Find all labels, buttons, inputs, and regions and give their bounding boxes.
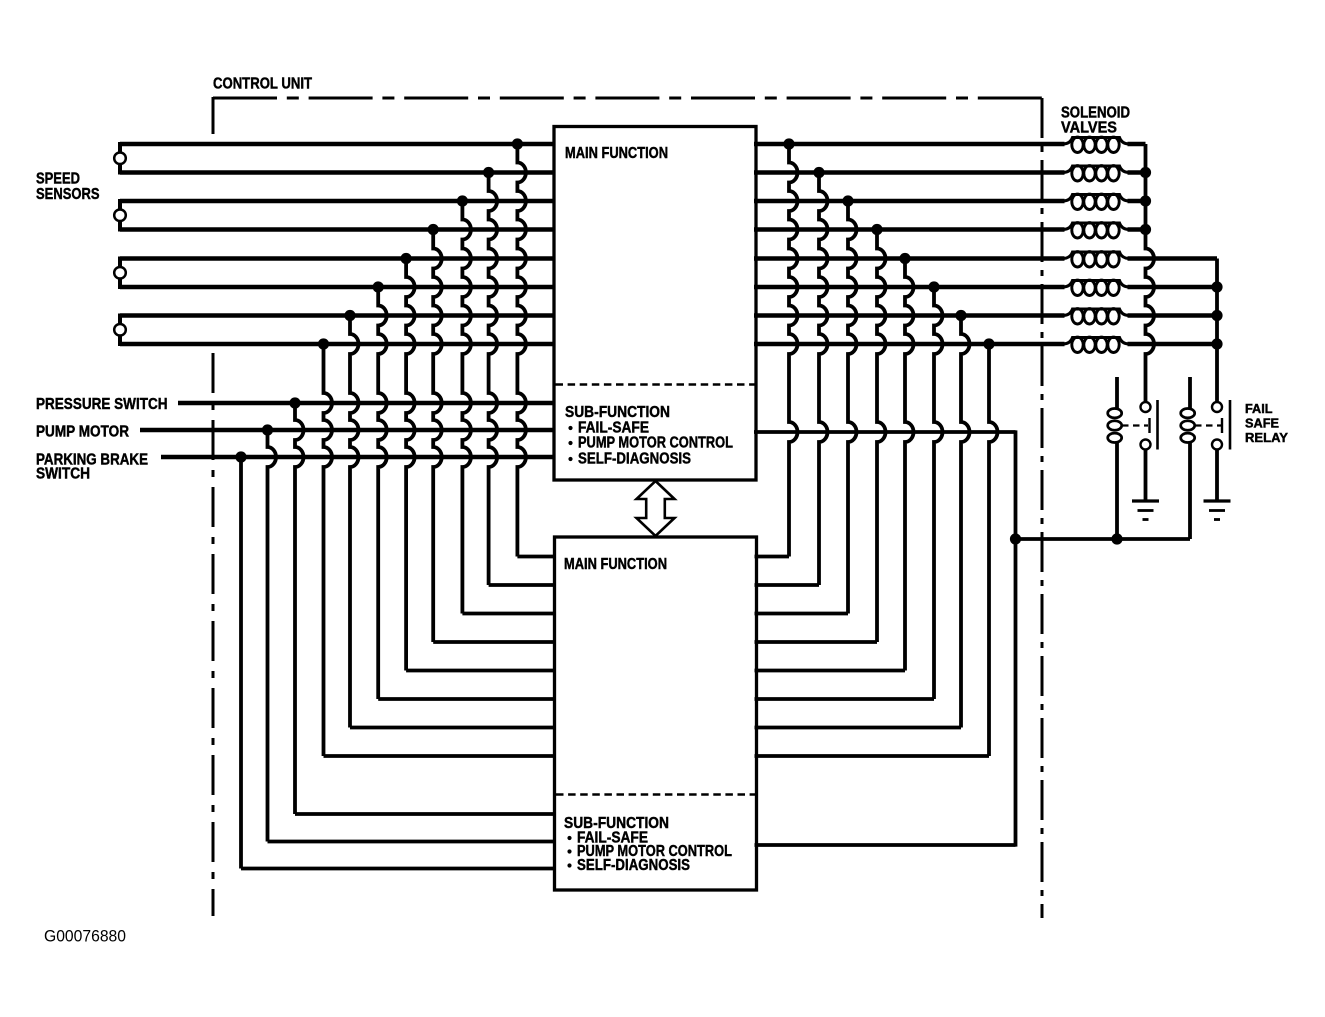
label U1 PUMP MOTOR CONTROL [568, 441, 572, 445]
wire row 7 left (sensor to control unit) [120, 313, 556, 317]
fail-safe relay K1 contact [1141, 402, 1151, 412]
solenoid valve coil L5 [1064, 252, 1129, 259]
label U1 SUB-FUNCTION [565, 404, 670, 421]
svg-text:PUMP MOTOR: PUMP MOTOR [36, 424, 129, 441]
svg-text:MAIN FUNCTION: MAIN FUNCTION [565, 145, 668, 162]
solenoid valve coil L3 [1064, 195, 1129, 202]
solenoid valve coil L7 [1064, 309, 1129, 316]
speed sensor SS3 [118, 257, 122, 290]
wire row 7 right (control unit to solenoid) [754, 313, 1065, 317]
wire row 4 left (sensor to control unit) [120, 227, 556, 231]
label CONTROL UNIT [213, 76, 312, 93]
fail-safe relay K2 contact [1212, 402, 1222, 412]
label SPEED SENSORS [36, 171, 80, 188]
junction bus2 row 8 [1211, 338, 1222, 349]
solenoid valve coil L6 [1064, 281, 1129, 288]
wire row 5 right (control unit to solenoid) [754, 256, 1065, 260]
wire pressure switch [178, 401, 556, 405]
svg-text:CONTROL UNIT: CONTROL UNIT [213, 76, 312, 93]
wire row 7 vertical link to lower block [350, 316, 359, 728]
wire pump motor vertical link to lower block [268, 430, 277, 842]
solenoid valve coil L8 [1064, 338, 1129, 345]
wire row 2 vertical link to lower block [489, 173, 498, 586]
label PARKING BRAKE SWITCH [36, 452, 148, 469]
svg-text:SENSORS: SENSORS [36, 186, 100, 203]
wire row 1 vertical link from lower block [789, 144, 798, 557]
junction row 6 left [373, 281, 384, 292]
control unit boundary (dash-dot), left side [212, 97, 215, 134]
wire row 6 vertical link from lower block [934, 287, 943, 699]
wire row 6 right (control unit to solenoid) [754, 285, 1065, 289]
control unit boundary (dash-dot), right side [1041, 98, 1044, 918]
solenoid valve coil L4 [1064, 223, 1129, 230]
wire solenoid bus 2 (rows 5-8) to relay contact K2 [1215, 259, 1219, 403]
wire row 1 left (sensor to control unit) [120, 142, 556, 146]
svg-text:FAIL: FAIL [1245, 401, 1273, 416]
junction row 2 right [813, 167, 824, 178]
svg-text:SUB-FUNCTION: SUB-FUNCTION [565, 404, 670, 421]
wire row 1 vertical link to lower block [517, 144, 526, 557]
junction bus1 row 2 [1140, 167, 1151, 178]
label U2 SUB-FUNCTION [564, 815, 669, 832]
svg-text:G00076880: G00076880 [44, 927, 126, 946]
svg-text:VALVES: VALVES [1061, 120, 1117, 137]
wire row 8 vertical link to lower block [324, 344, 333, 756]
junction row 7 left [344, 310, 355, 321]
label FAIL SAFE RELAY [1245, 401, 1273, 416]
wire row 6 vertical link to lower block [378, 287, 387, 699]
label U2 PUMP MOTOR CONTROL [567, 849, 571, 853]
label U1 FAIL-SAFE [568, 426, 572, 430]
label PRESSURE SWITCH [36, 396, 168, 413]
wire row 5 left (sensor to control unit) [120, 256, 556, 260]
svg-text:PRESSURE SWITCH: PRESSURE SWITCH [36, 396, 168, 413]
junction row 4 left [428, 224, 439, 235]
wire row 3 vertical link to lower block [462, 201, 471, 614]
junction bus1 row 3 [1140, 195, 1151, 206]
junction row 5 right [899, 253, 910, 264]
wire row 3 right (control unit to solenoid) [754, 199, 1065, 203]
svg-text:SELF-DIAGNOSIS: SELF-DIAGNOSIS [577, 857, 690, 874]
wire row 4 vertical link to lower block [433, 230, 442, 643]
junction row 1 right [783, 138, 794, 149]
junction row 8 left [318, 338, 329, 349]
junction row 7 right [955, 310, 966, 321]
solenoid valve coil L2 [1064, 166, 1129, 173]
label U1 SELF-DIAGNOSIS [568, 457, 572, 461]
wire parking brake switch [161, 455, 556, 459]
junction row 2 left [483, 167, 494, 178]
wire row 7 vertical link from lower block [961, 316, 970, 728]
wire row 2 vertical link from lower block [819, 173, 828, 586]
label U2 FAIL-SAFE [567, 836, 571, 840]
junction bus1 row 4 [1140, 224, 1151, 235]
wire pump motor [140, 428, 556, 432]
junction row 3 left [457, 195, 468, 206]
control unit boundary (dash-dot), top side [213, 97, 1042, 100]
svg-text:SWITCH: SWITCH [36, 466, 90, 483]
junction row 4 right [871, 224, 882, 235]
junction pump motor [262, 424, 273, 435]
junction parking brake switch [235, 451, 246, 462]
wire row 5 vertical link to lower block [406, 259, 415, 671]
wire row 5 vertical link from lower block [905, 259, 914, 671]
control unit lower block U2 [555, 537, 757, 890]
figure id G00076880 [44, 927, 126, 946]
wire row 8 right (control unit to solenoid) [754, 342, 1065, 346]
label PUMP MOTOR [36, 424, 129, 441]
fail-safe relay K2 coil [1188, 377, 1192, 409]
wire row 1 right (control unit to solenoid) [754, 142, 1065, 146]
wire row 4 vertical link from lower block [877, 230, 886, 643]
svg-text:MAIN FUNCTION: MAIN FUNCTION [564, 556, 667, 573]
wire row 2 right (control unit to solenoid) [754, 170, 1065, 174]
wire solenoid bus 1 (rows 1-4) to relay contact K1 [1146, 144, 1155, 402]
svg-text:SAFE: SAFE [1245, 416, 1279, 431]
label U2 SELF-DIAGNOSIS [567, 863, 571, 867]
speed sensor SS4 [118, 314, 122, 347]
junction bus2 row 7 [1211, 310, 1222, 321]
control unit upper block U1 [554, 127, 756, 481]
junction pump/relay feed [1010, 533, 1021, 544]
wire row 8 left (sensor to control unit) [120, 342, 556, 346]
junction row 6 right [928, 281, 939, 292]
label U1 MAIN FUNCTION [565, 145, 668, 162]
label SOLENOID VALVES [1061, 105, 1130, 122]
junction pressure switch [289, 397, 300, 408]
ground under K1 contact [1144, 450, 1148, 502]
wire row 2 left (sensor to control unit) [120, 170, 556, 174]
junction relay K1 coil feed [1111, 533, 1122, 544]
junction bus2 row 6 [1211, 281, 1222, 292]
wire parking brake switch vertical link to lower block [239, 457, 243, 869]
speed sensor SS1 [118, 142, 122, 175]
junction row 8 right [983, 338, 994, 349]
data exchange arrow between U1 and U2 [637, 481, 675, 536]
svg-text:SPEED: SPEED [36, 171, 80, 188]
wire row 8 vertical link from lower block [989, 344, 998, 756]
ground under K2 contact [1215, 450, 1219, 502]
wire row 3 left (sensor to control unit) [120, 199, 556, 203]
junction row 3 right [842, 195, 853, 206]
speed sensor SS2 [118, 199, 122, 232]
wire row 3 vertical link from lower block [848, 201, 857, 614]
svg-text:SELF-DIAGNOSIS: SELF-DIAGNOSIS [578, 451, 691, 468]
svg-text:RELAY: RELAY [1245, 430, 1288, 445]
svg-text:PUMP MOTOR CONTROL: PUMP MOTOR CONTROL [578, 435, 733, 452]
junction row 1 left [512, 138, 523, 149]
junction row 5 left [401, 253, 412, 264]
wire row 6 left (sensor to control unit) [120, 285, 556, 289]
solenoid valve coil L1 [1064, 138, 1129, 145]
wire relay feed [1016, 537, 1191, 541]
label U2 MAIN FUNCTION [564, 556, 667, 573]
wire row 4 right (control unit to solenoid) [754, 227, 1065, 231]
wire pressure switch vertical link to lower block [295, 403, 304, 814]
wire pump motor control (U1 right to fail-safe relay and U2) [754, 430, 1016, 434]
fail-safe relay K1 coil [1115, 377, 1119, 409]
